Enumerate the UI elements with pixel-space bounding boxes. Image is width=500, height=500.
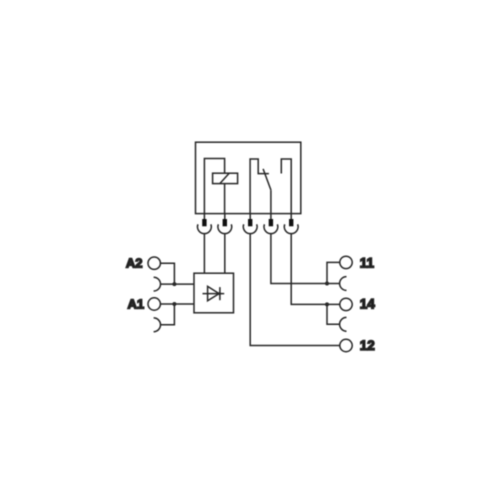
label 11: [360, 256, 375, 271]
label A2: [126, 256, 143, 271]
label 12: [360, 338, 375, 353]
bridge socket arc under A1: [154, 318, 161, 332]
wire terminal 5 down and right to terminal 14: [291, 233, 340, 304]
terminal socket arc 3: [243, 224, 257, 233]
wire A1 socket up to junction: [161, 304, 175, 325]
junction dot A2 row: [172, 282, 176, 286]
wire coil bottom to terminal 2: [224, 184, 226, 214]
svg-text:11: 11: [360, 256, 375, 271]
wire contact fixed NC leg from terminal 3: [250, 159, 269, 214]
label A1: [128, 297, 145, 312]
terminal plug pin 2: [223, 214, 227, 227]
wire terminal 4 down and right to socket under 11: [271, 233, 340, 283]
wire contact fixed NO leg from terminal 5: [281, 159, 291, 214]
junction dot 14 row: [325, 302, 329, 306]
bridge socket arc under 11: [340, 277, 347, 291]
wire A2 socket row into rectifier box: [161, 283, 195, 285]
wire A1 into rectifier box: [160, 303, 194, 305]
terminal socket arc 1: [198, 224, 212, 233]
diode V1: [203, 286, 225, 300]
wire 11 down to junction: [327, 262, 340, 283]
rectifier module box: [194, 273, 234, 313]
wire coil branch left leg (terminal 1 up and over): [204, 159, 224, 214]
terminal circle 11: [340, 256, 352, 268]
terminal socket arc 4: [264, 224, 278, 233]
relay module outline box: [196, 142, 301, 213]
wire A2 to junction: [160, 263, 174, 284]
terminal circle 14: [340, 298, 352, 310]
terminal socket arc 2: [218, 224, 232, 233]
terminal plug pin 4: [269, 214, 273, 227]
bridge socket arc under A2: [154, 277, 161, 291]
terminal circle A1: [148, 298, 160, 310]
junction dot 11 row: [325, 282, 329, 286]
junction dot A1 row: [172, 302, 176, 306]
terminal plug pin 5: [289, 214, 293, 227]
svg-text:14: 14: [360, 296, 376, 311]
wire 14 junction down to socket under 14: [327, 304, 340, 324]
wire contact common leg to terminal 4: [270, 190, 272, 213]
terminal plug pin 3: [248, 214, 252, 227]
relay coil K1: [213, 173, 238, 183]
terminal circle 12: [340, 339, 352, 351]
svg-text:A2: A2: [126, 256, 143, 271]
wire terminal 1 down to rectifier box: [203, 233, 205, 273]
label 14: [360, 296, 376, 311]
wire terminal 3 down and right to terminal 12: [250, 233, 340, 345]
terminal socket arc 5: [284, 224, 298, 233]
svg-text:A1: A1: [128, 297, 145, 312]
bridge socket arc under 14: [340, 317, 347, 331]
wire terminal 2 down to rectifier box: [224, 233, 226, 273]
contact lever (CO switch): [263, 169, 271, 190]
terminal plug pin 1: [202, 214, 206, 227]
terminal circle A2: [148, 257, 160, 269]
svg-text:12: 12: [360, 338, 375, 353]
